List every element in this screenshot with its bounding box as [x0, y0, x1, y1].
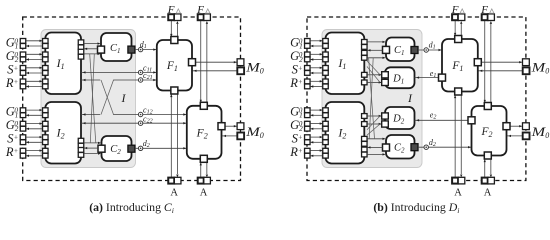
- svg-text:G20: G20: [6, 49, 19, 64]
- svg-text:A: A: [200, 188, 208, 199]
- svg-text:A: A: [484, 188, 492, 199]
- svg-text:G10: G10: [290, 35, 303, 50]
- svg-text:G10: G10: [6, 35, 19, 50]
- svg-text:F: F: [451, 4, 459, 16]
- svg-text:G10: G10: [290, 105, 303, 120]
- svg-text:A: A: [454, 188, 462, 199]
- svg-text:F: F: [196, 4, 204, 16]
- svg-text:G20: G20: [6, 118, 19, 133]
- svg-text:G20: G20: [290, 118, 303, 133]
- svg-text:G10: G10: [6, 105, 19, 120]
- svg-text:(a) Introducing Ci: (a) Introducing Ci: [89, 200, 174, 215]
- svg-text:A: A: [170, 188, 178, 199]
- svg-text:F: F: [167, 4, 175, 16]
- svg-text:F: F: [480, 4, 488, 16]
- svg-text:(b) Introducing Di: (b) Introducing Di: [373, 200, 459, 215]
- svg-text:G20: G20: [290, 49, 303, 64]
